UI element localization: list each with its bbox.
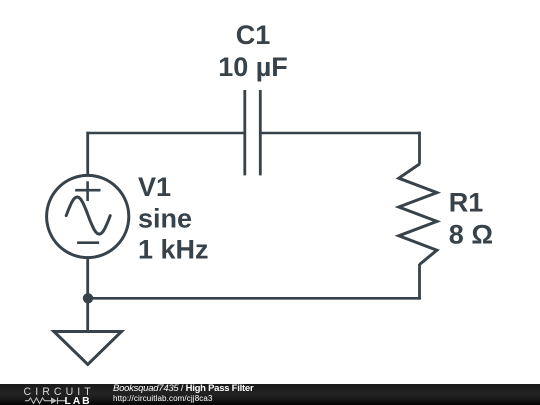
node junction dot [83,293,93,303]
capacitor C1 [245,90,260,175]
footer bar [0,384,540,405]
wire top-left (V1 top to C1 left plate) [86,132,245,135]
wire top-right (C1 right plate to R1 top) [260,132,421,135]
voltage source V1 [47,175,129,257]
svg-text:sine: sine [138,203,192,233]
svg-text:R1: R1 [449,188,484,218]
svg-text:8 Ω: 8 Ω [449,220,493,250]
svg-text:1 kHz: 1 kHz [138,235,209,265]
svg-text:LAB: LAB [65,396,92,405]
wire right upper (top wire to R1) [418,132,421,165]
wire right lower (R1 bottom to bottom wire) [418,264,421,300]
CircuitLab logo [0,384,110,405]
wire bottom (node to R1 bottom) [88,297,421,300]
ground [54,332,122,365]
svg-text:10 µF: 10 µF [218,52,288,82]
svg-text:C1: C1 [236,20,271,50]
footer url text [113,394,213,403]
logo resistor-diode glyph [25,398,66,405]
wire V1 top (vertical drop to source) [86,132,89,176]
svg-text:V1: V1 [138,172,171,202]
resistor R1 [399,164,437,265]
wire V1 bottom (source to ground node) [86,258,89,332]
footer title text [113,383,253,394]
